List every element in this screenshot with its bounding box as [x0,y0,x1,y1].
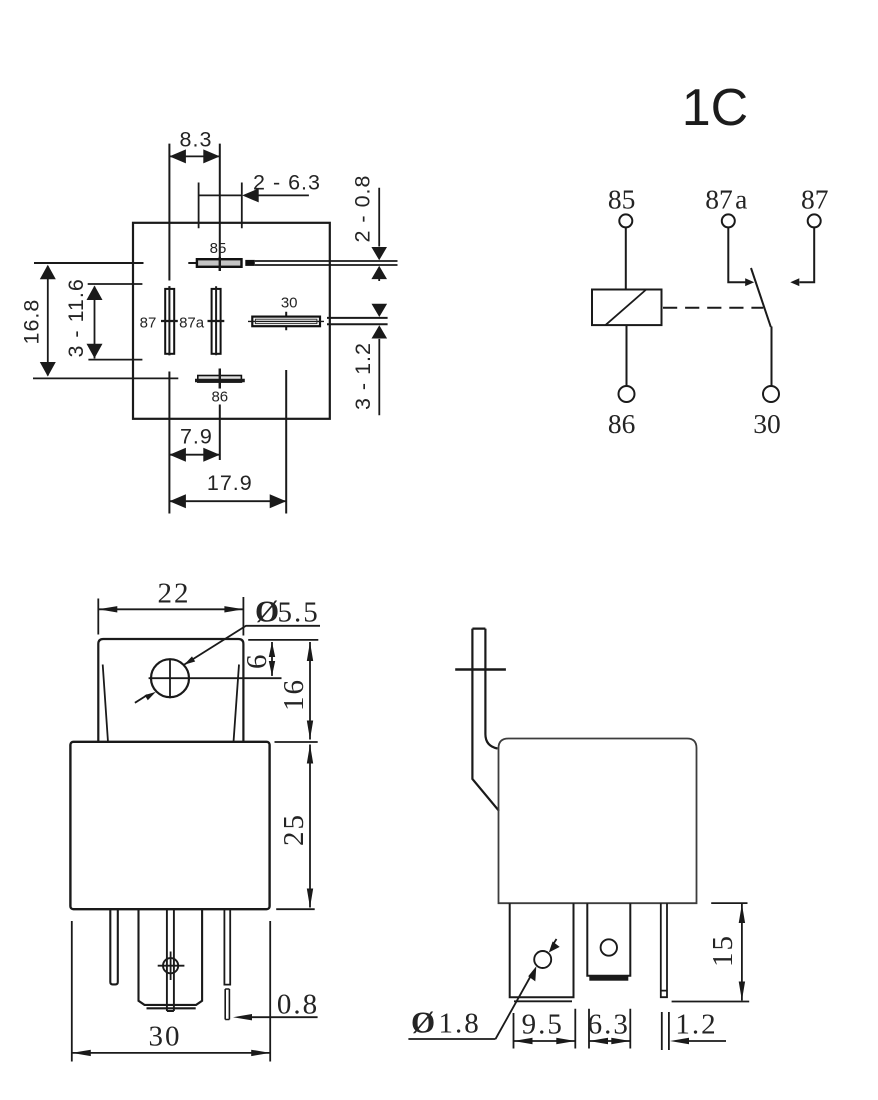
dimension 22 line and arrows [98,608,243,610]
centerline column pin 30 [285,312,287,514]
svg-text:86: 86 [211,389,228,406]
dimension 6 top extension line [248,639,318,641]
terminal circle 87 [808,214,821,227]
blade hole crosshair circle [163,958,178,973]
pin 87 slot centerline [168,286,170,355]
dimension 3-1.2 arrows [372,304,388,339]
relay base outline (bottom view) [133,223,330,419]
pin 87a slot [212,289,221,354]
dimension 17.9 line and arrows [169,500,286,502]
svg-text:87: 87 [140,315,157,332]
dimension 22 extension lines [98,597,243,636]
body bottom extension line [276,908,315,910]
centerline column pins 85/86 [219,144,221,460]
svg-text:87: 87 [801,184,829,215]
svg-text:3 - 1.2: 3 - 1.2 [351,342,375,410]
dimension 16.8 extension lines [33,377,178,379]
pin 85 center tick [219,257,221,271]
pin 85 blade edge connector [245,260,255,266]
dimension 16 line and arrows [309,642,311,740]
dimension 6.3 line and arrows [589,1040,630,1042]
pin 87 center tick [161,320,178,322]
dimension 8.3 line and arrows [169,155,219,157]
dimension 2-6.3 dim line [199,194,242,196]
svg-text:30: 30 [149,1021,182,1053]
pin 87a center tick [208,320,225,322]
svg-text:1C: 1C [682,79,748,137]
perpendicular blade edge lines [167,909,174,1011]
svg-text:0.8: 0.8 [277,989,319,1021]
middle pin tip bar [589,976,628,981]
centerline row pin 85 [34,262,197,264]
body top extension line [275,741,318,743]
left pin (front view) [110,909,118,984]
dimension 2-0.8 arrows [371,247,387,279]
tab tapered side lines [103,665,239,743]
pin 30 blade edge view lines [327,318,388,324]
dimension 2-6.3 leader arrow [258,194,309,196]
relay body (front view) [70,742,269,909]
leader shelf for 5.5 [184,626,320,665]
contact lever [751,268,771,327]
dimension 9.5 extension lines [514,1009,576,1049]
hole leader small arrow [552,939,557,946]
mounting tab (front view) [98,639,243,742]
dimension 2-6.3 extension lines [199,183,242,229]
mounting bracket (side view) [472,629,499,811]
dimension 15 extension lines [672,903,750,1001]
dimension 30 extension lines [72,921,270,1062]
svg-text:30: 30 [281,295,298,312]
dimension 25 line and arrows [309,745,311,908]
pin 87 slot [165,289,174,354]
pin 86 slot thick lower bar [195,379,245,383]
dimension 1.2 leader line and arrow [688,1040,726,1042]
svg-text:25: 25 [278,813,310,846]
middle pin hole [601,939,617,955]
svg-text:22: 22 [158,578,191,610]
svg-text:3 - 11.6: 3 - 11.6 [64,278,88,357]
svg-text:6.3: 6.3 [588,1009,630,1041]
terminal circle 87a [722,214,735,227]
dimension 9.5 line and arrows [514,1040,576,1042]
wire 87a with arrow [728,228,746,283]
dimension 3-11.6 arrows [87,286,103,359]
svg-text:1.8: 1.8 [439,1008,481,1040]
svg-text:Ø: Ø [411,1005,437,1040]
leader underline for 1.8 [408,1038,495,1040]
dimension 16.8 arrows [40,265,56,377]
pin 86 center tick [219,369,221,389]
right pin lower thin segment [225,989,229,1020]
svg-text:15: 15 [707,934,739,967]
opposite leader arrow at hole [135,695,148,703]
svg-text:86: 86 [608,408,636,439]
dimension 3-11.6 dim line [94,287,96,359]
svg-text:7.9: 7.9 [180,425,213,449]
terminal circle 85 [619,214,632,227]
svg-text:87a: 87a [179,315,205,332]
svg-text:8.3: 8.3 [180,128,213,152]
mounting hole crosshair [149,659,282,698]
svg-text:85: 85 [210,240,227,257]
terminal circle 30 [763,386,779,402]
svg-text:5.5: 5.5 [278,597,320,629]
pin 85 slot [197,259,242,267]
svg-text:17.9: 17.9 [207,471,253,495]
dimension 2-0.8 line [378,188,380,281]
dimension 3-1.2 line [378,339,380,415]
dimension 16.8 dim line [47,266,49,375]
dimension 30 line and arrows [72,1052,270,1054]
wire 85 to coil [625,228,627,290]
wire coil to 86 [626,325,628,386]
pin 30 slot centerline [248,320,324,322]
svg-text:9.5: 9.5 [522,1009,564,1041]
center wide blade pin [139,909,203,1008]
right pin upper segment [224,909,230,984]
terminal circle 86 [619,386,635,402]
pin 85 blade edge view lines [255,261,398,265]
dimension 6 line and arrows [271,642,273,676]
left wide pin (side view) [510,903,574,997]
svg-text:87 a: 87 a [705,184,747,215]
svg-text:1.2: 1.2 [675,1009,717,1041]
bracket centerline mark [455,668,506,670]
pin 87a slot centerline [215,286,217,355]
svg-text:2 - 0.8: 2 - 0.8 [351,175,375,243]
dimension 7.9 line and arrows [169,454,219,456]
dimension 3-11.6 extension lines [88,284,143,360]
right thin pin (side view) [661,903,667,997]
relay body (side view) [499,739,697,904]
svg-text:30: 30 [753,408,781,439]
dimension 6.3 extension lines [589,1009,630,1049]
pin 30 slot [252,317,320,327]
wire 87 with arrow [800,228,815,283]
mounting hole [151,659,189,697]
svg-text:16.8: 16.8 [20,299,44,345]
svg-text:2 - 6.3: 2 - 6.3 [253,171,321,195]
dimension 0.8 leader line and arrow [252,1016,318,1018]
pin 86 slot [198,376,242,383]
dimension 1.2 extension lines [662,1012,669,1050]
pin hole [534,951,551,968]
leader arrow to hole [184,656,195,664]
relay coil [592,290,662,326]
coil to contact dashed link [663,307,763,309]
svg-text:16: 16 [278,678,310,711]
svg-text:85: 85 [608,184,636,215]
centerline column pin 87 [168,144,170,514]
wire lever to 30 [771,327,773,386]
dimension 15 line and arrows [741,904,743,1001]
hole leader long arrow [496,976,532,1040]
svg-text:6: 6 [241,653,273,670]
left pin bottom chamfer line [514,1000,572,1002]
middle pin (side view) [587,903,630,976]
